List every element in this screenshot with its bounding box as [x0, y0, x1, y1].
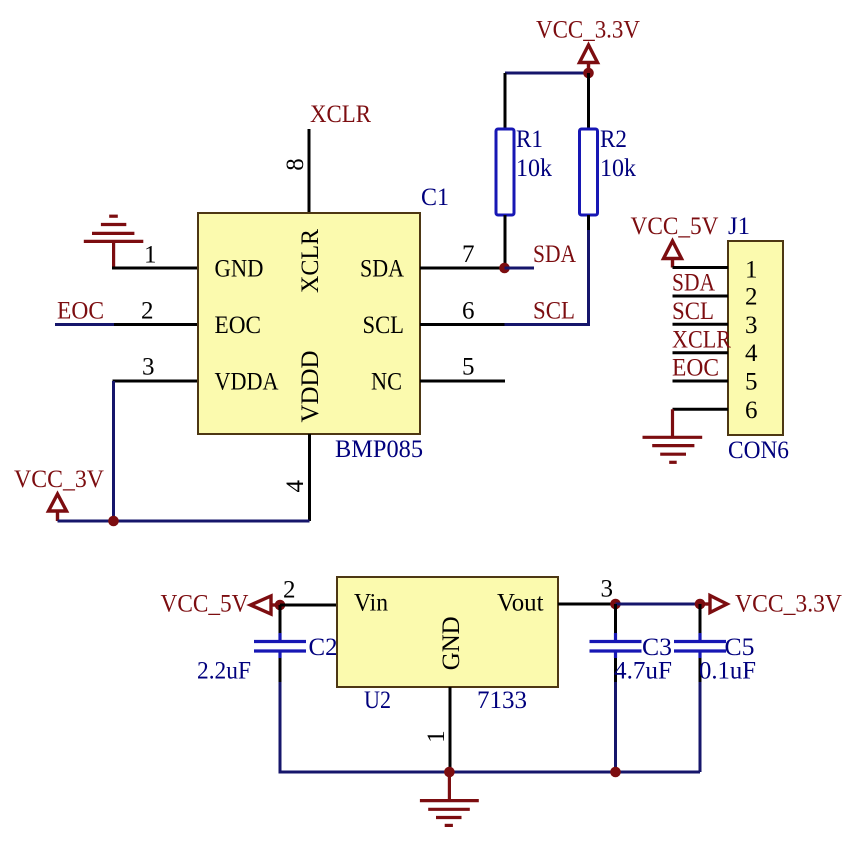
svg-text:XCLR: XCLR — [297, 229, 324, 293]
capacitor C2 — [254, 633, 306, 658]
capacitor C5 — [674, 633, 726, 658]
svg-text:SCL: SCL — [533, 297, 575, 324]
svg-text:XCLR: XCLR — [310, 101, 371, 128]
svg-text:CON6: CON6 — [728, 437, 789, 464]
wire VCC_3.3V horizontal (navy) — [505, 72, 589, 75]
svg-text:3: 3 — [142, 354, 155, 381]
svg-text:5: 5 — [462, 354, 475, 381]
svg-text:0.1uF: 0.1uF — [699, 658, 756, 685]
svg-text:C1: C1 — [421, 184, 449, 211]
junction dot VCC_5V/C2 — [275, 600, 286, 611]
svg-text:3: 3 — [601, 576, 614, 603]
capacitor C3 lead (black) — [614, 604, 617, 633]
svg-text:4: 4 — [282, 479, 309, 492]
capacitor C3 — [590, 633, 642, 658]
wire Vout to VCC_3.3V (navy) — [616, 603, 701, 606]
svg-text:J1: J1 — [728, 213, 750, 240]
svg-text:7: 7 — [462, 241, 475, 268]
wire R1 top lead (black) — [504, 73, 507, 129]
svg-text:2: 2 — [283, 577, 296, 604]
wire pin6 SCL (black) — [420, 323, 505, 326]
svg-text:EOC: EOC — [215, 312, 262, 339]
svg-text:U2: U2 — [364, 687, 391, 714]
svg-text:SCL: SCL — [363, 312, 405, 339]
wire J1 pin2 (black) — [673, 295, 729, 298]
wire pin1 GND (black) — [112, 267, 198, 270]
wire J1 pin5 (black) — [673, 380, 729, 383]
connector J1 body — [728, 241, 783, 435]
junction dot SDA/R1 — [499, 263, 510, 274]
svg-text:EOC: EOC — [57, 297, 104, 324]
svg-text:VCC_5V: VCC_5V — [631, 213, 719, 240]
wire EOC net (navy) — [55, 323, 114, 326]
wire R2 bottom lead (black) — [587, 215, 590, 230]
wire R1 bottom lead to SDA junction (black) — [504, 215, 507, 268]
resistor R1 — [496, 129, 514, 215]
wire J1 pin1 (black) — [673, 266, 729, 269]
wire VCC_3V rail (navy) — [58, 520, 310, 523]
svg-text:VDDD: VDDD — [297, 351, 324, 423]
junction dot Vout/C3 — [610, 599, 621, 610]
wire pin4 VDDD (black) — [308, 434, 311, 521]
svg-text:2: 2 — [141, 298, 154, 325]
ground symbol (below J1) — [643, 409, 703, 462]
svg-text:4: 4 — [745, 340, 758, 367]
svg-text:VCC_3V: VCC_3V — [14, 466, 104, 493]
svg-text:1: 1 — [745, 256, 758, 283]
svg-text:EOC: EOC — [672, 355, 719, 382]
wire pin7 SDA (black) — [420, 267, 505, 270]
svg-text:R2: R2 — [600, 126, 627, 153]
junction dot at VCC_3.3V — [583, 68, 594, 79]
IC U1 BMP085 body — [198, 213, 420, 434]
wire C5 down to GND rail (navy) — [699, 682, 702, 772]
wire C3 down to GND rail (navy) — [614, 682, 617, 772]
svg-text:SDA: SDA — [360, 256, 404, 283]
power port VCC_5V (bottom) left arrow — [251, 596, 281, 614]
wire C3 bottom stub (black) — [614, 658, 617, 682]
wire U2 pin3 Vout (black) — [558, 603, 616, 606]
wire C2 down to GND rail (navy) — [280, 682, 450, 772]
capacitor C5 lead (black) — [699, 604, 702, 633]
wire bottom GND rail (navy) — [280, 771, 700, 774]
wire SDA stub (navy) — [505, 267, 535, 270]
junction dot VCC_3V — [108, 516, 119, 527]
ground symbol (bottom) — [420, 772, 479, 825]
regulator U2 body — [337, 577, 558, 687]
wire R2 to SCL line (navy) — [505, 230, 589, 325]
svg-text:2: 2 — [745, 284, 758, 311]
svg-text:C2: C2 — [309, 634, 338, 661]
capacitor C2 lead (black) — [279, 605, 282, 633]
svg-text:VCC_5V: VCC_5V — [161, 591, 249, 618]
svg-text:7133: 7133 — [477, 687, 527, 714]
svg-text:SCL: SCL — [672, 298, 714, 325]
power port VCC_3.3V (bottom) right arrow — [700, 596, 727, 613]
svg-text:BMP085: BMP085 — [335, 436, 423, 463]
wire pin5 NC (black) — [420, 380, 505, 383]
wire pin3 VDDA (black) — [113, 380, 199, 383]
wire J1 pin6 (black) — [673, 408, 729, 411]
svg-text:2.2uF: 2.2uF — [197, 658, 251, 685]
wire C2 bottom stub (black) — [279, 658, 282, 682]
wire J1 pin3 (black) — [673, 323, 729, 326]
junction dot GND rail / C3 — [610, 767, 621, 778]
svg-text:SDA: SDA — [533, 241, 576, 268]
wire J1 pin4 (black) — [673, 351, 729, 354]
svg-text:VCC_3.3V: VCC_3.3V — [735, 591, 842, 618]
svg-text:4.7uF: 4.7uF — [614, 658, 672, 685]
svg-text:NC: NC — [371, 369, 402, 396]
svg-text:10k: 10k — [600, 155, 636, 182]
svg-text:SDA: SDA — [672, 270, 715, 297]
wire pin8 XCLR (black) — [308, 129, 311, 213]
wire VDDA down to VCC_3V rail (navy) — [112, 381, 115, 521]
svg-text:10k: 10k — [516, 155, 552, 182]
svg-text:1: 1 — [144, 242, 157, 269]
wire pin2 EOC (black) — [114, 323, 198, 326]
wire U2 pin1 GND (black) — [449, 687, 452, 772]
svg-text:VDDA: VDDA — [215, 369, 279, 396]
svg-text:6: 6 — [462, 298, 475, 325]
svg-text:VCC_3.3V: VCC_3.3V — [536, 17, 640, 44]
power port VCC_5V (J1) arrow — [664, 241, 682, 268]
resistor R2 — [580, 129, 598, 215]
junction dot GND rail / U2 pin1 — [444, 767, 455, 778]
svg-text:Vin: Vin — [354, 590, 388, 617]
wire U2 pin2 (black) — [280, 604, 337, 607]
junction dot C5 — [695, 599, 706, 610]
svg-text:GND: GND — [215, 256, 264, 283]
svg-text:8: 8 — [282, 158, 309, 171]
wire C5 bottom stub (black) — [699, 658, 702, 682]
svg-text:5: 5 — [745, 369, 758, 396]
svg-text:3: 3 — [745, 312, 758, 339]
svg-text:6: 6 — [745, 397, 758, 424]
power port VCC_3.3V (top) arrow symbol — [580, 45, 598, 73]
power port VCC_3V arrow — [49, 494, 67, 521]
svg-text:R1: R1 — [516, 126, 543, 153]
svg-text:1: 1 — [423, 730, 450, 743]
wire R2 top lead (black) — [587, 73, 590, 129]
svg-text:XCLR: XCLR — [672, 326, 731, 353]
ground symbol (top-left, bars up) — [84, 216, 144, 269]
svg-text:Vout: Vout — [497, 590, 544, 617]
svg-text:GND: GND — [438, 616, 465, 670]
